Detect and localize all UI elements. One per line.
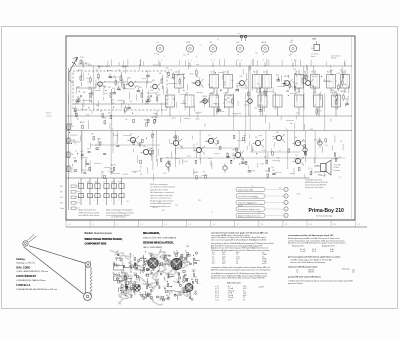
svg-text:47p: 47p xyxy=(179,256,181,258)
svg-text:4k7: 4k7 xyxy=(120,282,122,284)
svg-text:R207: R207 xyxy=(192,269,195,271)
svg-text:D4: D4 xyxy=(127,201,129,203)
svg-text:kHz Spannungen ca against bei: kHz Spannungen ca against bei xyxy=(150,191,174,194)
svg-text:D4: D4 xyxy=(139,171,141,173)
svg-text:10n: 10n xyxy=(178,282,180,284)
svg-text:47p: 47p xyxy=(119,258,121,260)
svg-text:R12: R12 xyxy=(162,210,165,212)
svg-text:100: 100 xyxy=(128,78,131,80)
svg-text:BC148: BC148 xyxy=(238,205,243,207)
svg-text:470: 470 xyxy=(154,54,157,56)
svg-text:a: a xyxy=(285,215,286,217)
svg-text:gegen tension UKW: gegen tension UKW xyxy=(238,188,253,191)
svg-text:100: 100 xyxy=(183,54,186,56)
svg-text:C118: C118 xyxy=(302,141,306,143)
svg-text:6,8V siehe tuner: 6,8V siehe tuner xyxy=(227,282,241,285)
svg-text:15p: 15p xyxy=(227,97,230,99)
svg-text:DM: DM xyxy=(313,39,316,41)
svg-text:0,1: 0,1 xyxy=(251,185,253,187)
svg-text:9V Spannungen signal position: 9V Spannungen signal position xyxy=(150,199,173,202)
svg-text:C118: C118 xyxy=(74,111,78,113)
svg-text:100: 100 xyxy=(196,76,199,78)
svg-text:D4: D4 xyxy=(200,177,202,179)
svg-text:1:7: 1:7 xyxy=(237,224,239,226)
svg-text:AM kHz bandspread chassis diag: AM kHz bandspread chassis diagram approx… xyxy=(211,269,271,272)
svg-text:C118: C118 xyxy=(194,291,197,293)
svg-text:Seillänge ca 470 mm: Seillänge ca 470 mm xyxy=(16,263,35,265)
svg-text:COMPONENT SIDE: COMPONENT SIDE xyxy=(85,243,107,246)
svg-text:2,2: 2,2 xyxy=(339,177,341,179)
svg-text:1:12: 1:12 xyxy=(357,224,360,226)
svg-text:47p: 47p xyxy=(255,137,258,139)
svg-text:Taste: Taste xyxy=(60,207,64,210)
svg-text:220: 220 xyxy=(297,89,300,91)
svg-text:220: 220 xyxy=(210,72,213,74)
svg-text:C45: C45 xyxy=(263,72,266,74)
svg-text:circuit mA LW contre valeurs: circuit mA LW contre valeurs xyxy=(78,214,99,217)
svg-text:D4: D4 xyxy=(120,288,122,290)
svg-text:L7: L7 xyxy=(125,296,127,298)
svg-text:10n: 10n xyxy=(159,73,162,75)
svg-text:C118: C118 xyxy=(118,90,122,92)
svg-text:5k6: 5k6 xyxy=(71,154,74,156)
svg-text:BC148: BC148 xyxy=(171,78,176,80)
svg-text:460 kHz: 460 kHz xyxy=(308,272,314,274)
svg-text:4k7: 4k7 xyxy=(304,71,307,73)
svg-text:68n: 68n xyxy=(290,40,293,42)
svg-text:1n5: 1n5 xyxy=(258,211,261,213)
svg-text:R207: R207 xyxy=(97,138,101,140)
svg-text:68n: 68n xyxy=(176,262,178,264)
svg-text:C45: C45 xyxy=(240,76,243,78)
svg-text:47p: 47p xyxy=(75,113,78,115)
svg-text:1:6: 1:6 xyxy=(213,224,215,226)
svg-text:valeurs contre Seite 8mA max G: valeurs contre Seite 8mA max Gesamtstrom xyxy=(290,261,326,264)
svg-text:battery tuner valeurs KW Volum: battery tuner valeurs KW Volume MHz mit … xyxy=(211,277,265,280)
svg-text:ca 6,8V: ca 6,8V xyxy=(258,287,265,289)
svg-text:Prima-Boy 210: Prima-Boy 210 xyxy=(309,208,345,214)
svg-text:8,2: 8,2 xyxy=(208,84,210,86)
svg-text:BC148: BC148 xyxy=(149,150,154,152)
svg-text:33k: 33k xyxy=(253,72,256,74)
svg-text:1:4: 1:4 xyxy=(164,224,166,226)
svg-text:L7: L7 xyxy=(279,150,281,152)
svg-text:BF195: BF195 xyxy=(248,203,253,205)
svg-text:Pick-up: Pick-up xyxy=(331,58,336,60)
svg-text:LONGUEUR DU CABLE 470mm: LONGUEUR DU CABLE 470mm xyxy=(16,279,45,282)
svg-text:4k7: 4k7 xyxy=(123,103,126,105)
svg-text:100: 100 xyxy=(77,87,80,89)
svg-text:15p: 15p xyxy=(87,82,90,84)
svg-text:4k7: 4k7 xyxy=(150,271,152,273)
svg-text:33k: 33k xyxy=(182,288,184,290)
svg-text:470: 470 xyxy=(340,70,343,72)
svg-text:100: 100 xyxy=(175,205,178,207)
svg-text:L7: L7 xyxy=(196,144,198,146)
svg-text:1n5: 1n5 xyxy=(96,105,99,107)
svg-text:T3: T3 xyxy=(203,171,205,173)
svg-text:ENTRAÎNEMENT: ENTRAÎNEMENT xyxy=(16,275,36,278)
svg-text:10n: 10n xyxy=(173,251,175,253)
svg-text:C45: C45 xyxy=(194,277,197,279)
svg-text:2,2: 2,2 xyxy=(102,172,104,174)
svg-text:R12: R12 xyxy=(150,263,153,265)
svg-text:R207: R207 xyxy=(261,163,265,165)
svg-text:47p: 47p xyxy=(104,86,107,88)
svg-text:voltage total sans switch: voltage total sans switch xyxy=(305,186,323,189)
svg-text:R12: R12 xyxy=(136,86,139,88)
svg-text:8,2: 8,2 xyxy=(230,95,232,97)
svg-text:33k: 33k xyxy=(139,87,142,89)
svg-text:R207: R207 xyxy=(297,193,301,195)
svg-text:22k: 22k xyxy=(128,263,130,265)
svg-text:8,2: 8,2 xyxy=(124,282,126,284)
svg-text:C118: C118 xyxy=(254,197,258,199)
svg-text:R207: R207 xyxy=(334,91,338,93)
svg-text:4 →: 4 → xyxy=(197,282,201,285)
svg-text:8,2: 8,2 xyxy=(295,137,297,139)
svg-text:15p: 15p xyxy=(166,158,169,160)
svg-text:L12: L12 xyxy=(277,157,280,159)
svg-text:LATO COMPONENTI: LATO COMPONENTI xyxy=(143,246,163,249)
svg-text:1k: 1k xyxy=(170,69,172,71)
svg-text:0,47: 0,47 xyxy=(71,126,74,128)
svg-text:1:1: 1:1 xyxy=(92,224,94,226)
svg-text:signal consumption tuner mA: signal consumption tuner mA xyxy=(150,194,173,197)
svg-text:a: a xyxy=(285,209,286,211)
svg-text:4k7: 4k7 xyxy=(252,150,255,152)
svg-text:4k7: 4k7 xyxy=(152,80,155,82)
svg-text:BC148: BC148 xyxy=(168,292,172,294)
svg-text:15p: 15p xyxy=(231,80,234,82)
svg-text:L7: L7 xyxy=(75,151,77,153)
svg-text:BF195: BF195 xyxy=(341,91,346,93)
svg-text:2,2: 2,2 xyxy=(108,171,110,173)
svg-text:Seilzug: Seilzug xyxy=(16,258,25,261)
svg-text:45: 45 xyxy=(236,263,238,265)
svg-text:230: 230 xyxy=(222,263,225,265)
svg-text:D4: D4 xyxy=(246,88,248,90)
svg-text:100: 100 xyxy=(143,146,146,148)
svg-text:0,1: 0,1 xyxy=(157,42,159,44)
svg-text:15p: 15p xyxy=(255,52,258,54)
svg-text:KW: KW xyxy=(60,202,63,204)
svg-text:L12: L12 xyxy=(145,284,147,286)
svg-text:15p: 15p xyxy=(74,158,77,160)
svg-text:C118: C118 xyxy=(166,275,169,277)
svg-text:L7: L7 xyxy=(166,281,168,283)
svg-text:CORD LENGTH APPROX. 470 mm: CORD LENGTH APPROX. 470 mm xyxy=(16,270,48,273)
svg-text:T3: T3 xyxy=(111,129,113,131)
svg-text:2,2: 2,2 xyxy=(208,135,210,137)
svg-text:ca MHz 0,9V tension battery: ca MHz 0,9V tension battery xyxy=(78,211,99,214)
svg-text:FUNICELLA: FUNICELLA xyxy=(16,284,30,287)
svg-text:1k: 1k xyxy=(158,91,160,93)
svg-text:FM 94: FM 94 xyxy=(113,263,117,265)
svg-text:2,2: 2,2 xyxy=(118,272,120,274)
svg-text:9: 9 xyxy=(90,261,91,263)
svg-text:10n: 10n xyxy=(166,68,169,70)
svg-text:8,2: 8,2 xyxy=(176,251,178,253)
svg-text:1:5: 1:5 xyxy=(189,224,191,226)
svg-text:R207: R207 xyxy=(308,208,312,210)
svg-text:C45: C45 xyxy=(124,293,127,295)
svg-text:L7: L7 xyxy=(223,103,225,105)
svg-text:8,2: 8,2 xyxy=(185,250,187,252)
svg-text:100: 100 xyxy=(125,119,128,121)
svg-text:68n: 68n xyxy=(125,285,127,287)
svg-text:L12: L12 xyxy=(340,141,343,143)
svg-text:33k: 33k xyxy=(149,294,151,296)
svg-text:b: b xyxy=(285,196,286,198)
svg-text:5k6: 5k6 xyxy=(129,255,131,257)
svg-text:Anschluss max max 8mA Seite ge: Anschluss max max 8mA Seite gemessen geg… xyxy=(288,242,346,245)
svg-text:Ausgang 0,2 W: Ausgang 0,2 W xyxy=(322,245,335,248)
svg-text:470: 470 xyxy=(91,134,94,136)
svg-text:2,2: 2,2 xyxy=(95,145,97,147)
svg-text:220: 220 xyxy=(224,72,227,74)
svg-text:BF195: BF195 xyxy=(203,96,208,98)
svg-text:Output AM signal Seite: Output AM signal Seite xyxy=(305,178,322,181)
svg-text:C45: C45 xyxy=(108,87,111,89)
svg-text:1:3: 1:3 xyxy=(140,224,142,226)
svg-text:1n5: 1n5 xyxy=(157,280,159,282)
svg-text:22k: 22k xyxy=(121,87,124,89)
svg-text:470: 470 xyxy=(276,132,279,134)
svg-text:D4: D4 xyxy=(182,279,184,281)
svg-text:Tonabnehmer: Tonabnehmer xyxy=(331,55,341,57)
svg-text:TB: TB xyxy=(262,54,264,56)
svg-text:1:0: 1:0 xyxy=(68,224,70,226)
svg-text:100: 100 xyxy=(279,187,282,189)
svg-text:5k6: 5k6 xyxy=(295,83,298,85)
svg-text:2,2: 2,2 xyxy=(131,137,133,139)
svg-text:LW: LW xyxy=(60,191,63,193)
svg-text:C118: C118 xyxy=(80,57,84,59)
svg-text:220: 220 xyxy=(226,153,229,155)
svg-text:approx measured max: approx measured max xyxy=(78,210,96,212)
svg-text:22k: 22k xyxy=(112,88,115,90)
svg-text:0,47: 0,47 xyxy=(293,69,296,71)
svg-text:T3: T3 xyxy=(217,39,219,41)
svg-text:C118: C118 xyxy=(150,253,153,255)
svg-text:C45: C45 xyxy=(158,286,161,288)
svg-text:1:2: 1:2 xyxy=(116,224,118,226)
svg-text:Tr2: Tr2 xyxy=(235,149,237,151)
svg-text:8,2: 8,2 xyxy=(95,86,97,88)
svg-text:Bladteil, Bestückungsseite: Bladteil, Bestückungsseite xyxy=(85,232,113,235)
svg-text:68n: 68n xyxy=(330,70,333,72)
svg-text:0,47: 0,47 xyxy=(115,258,118,260)
svg-text:R12: R12 xyxy=(144,120,147,122)
svg-text:switch Anschluss 75mA: switch Anschluss 75mA xyxy=(150,188,169,191)
svg-text:2,2: 2,2 xyxy=(100,111,102,113)
svg-text:page current gegen total diagr: page current gegen total diagram xyxy=(106,209,133,212)
svg-text:a 0,2: a 0,2 xyxy=(215,299,219,301)
svg-text:470: 470 xyxy=(186,259,188,261)
svg-text:8 Ohm: 8 Ohm xyxy=(334,167,340,169)
svg-text:BC148: BC148 xyxy=(156,95,161,97)
svg-text:L7: L7 xyxy=(336,81,338,83)
svg-text:UKW: UKW xyxy=(111,181,115,183)
svg-text:←: ← xyxy=(107,268,109,270)
svg-text:8,2: 8,2 xyxy=(137,282,139,284)
svg-text:C118: C118 xyxy=(210,93,214,95)
svg-text:0,1: 0,1 xyxy=(155,280,157,282)
svg-text:BF195: BF195 xyxy=(259,105,264,107)
svg-text:R207: R207 xyxy=(187,42,191,44)
svg-text:22k: 22k xyxy=(286,91,289,93)
svg-text:C28: C28 xyxy=(186,246,189,248)
svg-text:Gesamtstrom diagram circuit: Gesamtstrom diagram circuit xyxy=(238,208,260,211)
svg-text:1:9: 1:9 xyxy=(285,224,287,226)
svg-text:220: 220 xyxy=(255,108,258,110)
svg-text:Skala Typ: Skala Typ xyxy=(342,268,349,270)
svg-text:10n: 10n xyxy=(257,84,260,86)
svg-text:see 75mA 0,9V mit LW measured: see 75mA 0,9V mit LW measured xyxy=(150,186,175,189)
svg-text:gemessen Volume: gemessen Volume xyxy=(288,283,303,285)
svg-text:a: a xyxy=(285,202,286,204)
svg-text:D4: D4 xyxy=(294,60,296,62)
svg-text:DIAL CORD: DIAL CORD xyxy=(16,266,30,269)
svg-text:15p: 15p xyxy=(345,99,348,101)
svg-text:L7: L7 xyxy=(130,293,132,295)
svg-text:10n: 10n xyxy=(183,74,186,76)
svg-text:position 6,8V gegen AM KW: position 6,8V gegen AM KW xyxy=(305,184,326,187)
svg-text:R207: R207 xyxy=(310,129,314,131)
svg-text:L7: L7 xyxy=(314,105,316,107)
svg-text:D4: D4 xyxy=(177,75,179,77)
svg-text:9: 9 xyxy=(196,57,197,59)
svg-text:8,2: 8,2 xyxy=(289,55,291,57)
svg-text:1n5: 1n5 xyxy=(331,197,334,199)
svg-text:33k: 33k xyxy=(83,92,86,94)
svg-text:8,2: 8,2 xyxy=(130,134,132,136)
svg-text:0,1: 0,1 xyxy=(200,45,202,47)
svg-text:0,47: 0,47 xyxy=(265,170,268,172)
svg-text:5k6: 5k6 xyxy=(237,42,240,44)
svg-text:15p: 15p xyxy=(139,292,141,294)
svg-text:22k: 22k xyxy=(112,99,115,101)
svg-text:1:8: 1:8 xyxy=(261,224,263,226)
svg-text:33k: 33k xyxy=(188,295,190,297)
svg-text:47p: 47p xyxy=(314,93,317,95)
svg-text:22k: 22k xyxy=(333,96,336,98)
svg-text:KW: KW xyxy=(60,186,63,188)
svg-text:0,47: 0,47 xyxy=(80,151,83,153)
svg-text:0,47: 0,47 xyxy=(224,93,227,95)
svg-text:Lautspr.: Lautspr. xyxy=(334,169,341,172)
svg-text:WIRED STAGE PRINTED BOARD,: WIRED STAGE PRINTED BOARD, xyxy=(85,238,123,241)
svg-text:Masse: Masse xyxy=(311,56,316,58)
svg-text:SEZIONE MESCOLATRICE,: SEZIONE MESCOLATRICE, xyxy=(143,241,174,244)
svg-text:33k: 33k xyxy=(142,265,144,267)
svg-text:C45: C45 xyxy=(163,253,166,255)
svg-text:BC148: BC148 xyxy=(244,105,249,107)
svg-text:33k: 33k xyxy=(295,93,298,95)
svg-text:C45: C45 xyxy=(290,42,293,44)
svg-text:consumption position mit Spann: consumption position mit Spannungen sign… xyxy=(288,234,334,237)
svg-text:2,2: 2,2 xyxy=(179,292,181,294)
svg-text:4k7: 4k7 xyxy=(210,42,213,44)
svg-text:0,47: 0,47 xyxy=(192,271,195,273)
svg-text:22k: 22k xyxy=(166,93,169,95)
svg-text:AM FM kHz mA see UKW FM: AM FM kHz mA see UKW FM xyxy=(305,181,328,184)
svg-text:mA mesure LW LW position signa: mA mesure LW LW position signal xyxy=(288,266,318,269)
svg-text:T3: T3 xyxy=(116,252,118,254)
svg-text:1:11: 1:11 xyxy=(333,224,336,226)
svg-text:U1: U1 xyxy=(238,33,240,35)
svg-text:L12: L12 xyxy=(272,170,275,172)
svg-text:10n: 10n xyxy=(146,71,149,73)
svg-text:1:10: 1:10 xyxy=(309,224,312,226)
svg-text:L7: L7 xyxy=(211,212,213,214)
svg-text:1,2: 1,2 xyxy=(296,272,298,274)
svg-text:LS 0,2W: LS 0,2W xyxy=(334,164,341,166)
svg-text:R12: R12 xyxy=(198,200,201,202)
svg-text:R12: R12 xyxy=(151,90,154,92)
svg-text:L12: L12 xyxy=(158,202,161,204)
svg-text:1k: 1k xyxy=(88,74,90,76)
svg-text:TB: TB xyxy=(157,54,159,56)
svg-text:33k: 33k xyxy=(108,112,111,114)
svg-text:47p: 47p xyxy=(158,261,160,263)
svg-text:KW: KW xyxy=(60,197,63,199)
svg-text:100: 100 xyxy=(300,74,303,76)
svg-text:signal les ca 0,9V gemessen: signal les ca 0,9V gemessen xyxy=(150,198,172,200)
svg-text:68n: 68n xyxy=(290,123,293,125)
svg-text:10n: 10n xyxy=(274,93,277,95)
svg-text:position battery 8mA diagram V: position battery 8mA diagram Volume xyxy=(106,211,134,214)
svg-text:5k6: 5k6 xyxy=(311,48,314,50)
svg-text:L7: L7 xyxy=(117,84,119,86)
svg-text:10n: 10n xyxy=(133,273,135,275)
svg-text:33k: 33k xyxy=(99,82,102,84)
svg-text:tuner current coil approx AM o: tuner current coil approx AM oscillator … xyxy=(211,239,267,242)
svg-text:5k6: 5k6 xyxy=(132,287,134,289)
svg-text:100: 100 xyxy=(175,72,178,74)
svg-text:VUE DU CÔTE DES COMPOSANTS: VUE DU CÔTE DES COMPOSANTS xyxy=(143,237,177,240)
svg-text:100: 100 xyxy=(191,279,193,281)
svg-text:Abgleich 75mA gemessen mit: Abgleich 75mA gemessen mit xyxy=(238,214,261,217)
svg-text:R12: R12 xyxy=(121,80,124,82)
svg-text:position FM siehe Volume KW Ch: position FM siehe Volume KW Chassis xyxy=(288,276,321,279)
svg-text:C118: C118 xyxy=(88,89,92,91)
svg-text:0,2: 0,2 xyxy=(212,263,214,265)
svg-text:LUNGHEZZA DELLA FUNICELLA ca 4: LUNGHEZZA DELLA FUNICELLA ca 470 mm xyxy=(16,288,57,291)
svg-text:UKW: UKW xyxy=(95,181,99,183)
svg-text:L7: L7 xyxy=(71,168,73,170)
svg-text:R12: R12 xyxy=(276,75,279,77)
svg-text:e: e xyxy=(285,189,286,191)
svg-text:1n5: 1n5 xyxy=(339,157,342,159)
svg-text:100: 100 xyxy=(110,169,113,171)
svg-text:0,47: 0,47 xyxy=(129,101,132,103)
svg-text:70: 70 xyxy=(243,299,245,301)
svg-text:Eingang 1 kHz: Eingang 1 kHz xyxy=(292,246,304,248)
svg-text:mit Taschenlampe: mit Taschenlampe xyxy=(316,214,333,217)
svg-text:UKW max consumption: UKW max consumption xyxy=(150,183,168,186)
svg-text:BF195: BF195 xyxy=(71,140,76,142)
svg-text:L7: L7 xyxy=(164,56,166,58)
svg-text:2,5 mV: 2,5 mV xyxy=(300,251,306,253)
svg-text:4k7: 4k7 xyxy=(216,97,219,99)
svg-text:1k: 1k xyxy=(264,157,266,159)
svg-text:MELANGEUR,: MELANGEUR, xyxy=(143,232,160,235)
svg-text:circuit kHz 75mA ca: circuit kHz 75mA ca xyxy=(111,216,126,219)
svg-text:Tr2: Tr2 xyxy=(295,155,297,157)
svg-text:D4: D4 xyxy=(116,142,118,144)
